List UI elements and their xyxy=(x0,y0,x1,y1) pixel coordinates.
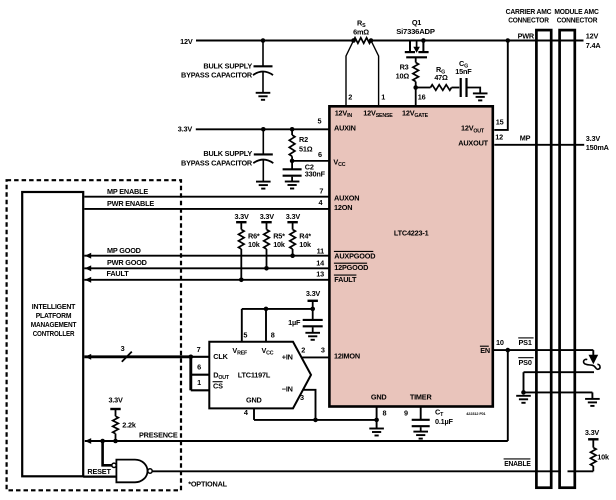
svg-text:PWR ENABLE: PWR ENABLE xyxy=(107,199,154,208)
svg-text:PS0: PS0 xyxy=(519,358,532,367)
wire analog ground run xyxy=(254,419,377,421)
svg-text:EN: EN xyxy=(480,346,490,355)
wire +IN to 12IMON xyxy=(301,356,330,358)
svg-text:PWR GOOD: PWR GOOD xyxy=(107,258,147,267)
svg-text:150mA: 150mA xyxy=(586,143,610,152)
wire sense line to pin 1 xyxy=(371,41,379,108)
junction Q1 drain xyxy=(421,38,426,43)
svg-text:−IN: −IN xyxy=(282,385,293,394)
svg-text:8: 8 xyxy=(383,408,387,417)
wire CLK stub xyxy=(191,356,209,358)
wire 12VOUT pin 15 xyxy=(494,41,508,130)
svg-text:CONNECTOR: CONNECTOR xyxy=(508,15,549,24)
svg-text:AUXON: AUXON xyxy=(334,194,359,203)
junction PS0 ground xyxy=(521,390,526,395)
junction 2.2k presence xyxy=(113,439,118,444)
op-amp U1 LTC4223-1 xyxy=(329,106,492,406)
svg-text:12IMON: 12IMON xyxy=(334,351,360,360)
svg-text:2.2k: 2.2k xyxy=(122,420,137,429)
svg-text:7.4A: 7.4A xyxy=(586,41,602,50)
svg-text:CONNECTOR: CONNECTOR xyxy=(557,15,598,24)
wire PS0 xyxy=(524,371,595,373)
wire CG to ground xyxy=(468,88,481,94)
svg-text:10: 10 xyxy=(496,338,504,347)
wire gate node to pin 16 xyxy=(415,88,417,108)
node 16 junction xyxy=(413,85,418,90)
svg-text:10Ω: 10Ω xyxy=(396,72,410,81)
svg-text:LTC1197L: LTC1197L xyxy=(238,370,271,379)
wire Q1 gate lead xyxy=(415,57,417,62)
svg-text:3: 3 xyxy=(121,344,125,353)
svg-text:BULK SUPPLY: BULK SUPPLY xyxy=(203,61,252,70)
op-amp U2 LTC1197L ADC xyxy=(209,342,311,409)
junction IC ground xyxy=(374,418,379,423)
svg-text:PLATFORM: PLATFORM xyxy=(36,311,72,320)
svg-text:3: 3 xyxy=(321,346,325,355)
wire PWR ENABLE xyxy=(84,208,330,210)
wire PRESENCE xyxy=(85,440,508,442)
svg-text:0.1µF: 0.1µF xyxy=(435,417,454,426)
wire MP ENABLE xyxy=(84,196,330,198)
capacitor CT 0.1uF xyxy=(420,406,422,419)
svg-text:10k: 10k xyxy=(273,240,286,249)
wire R3 to gate node xyxy=(415,82,417,88)
wire bus vertical xyxy=(189,357,192,391)
svg-text:BYPASS CAPACITOR: BYPASS CAPACITOR xyxy=(181,70,253,79)
svg-text:1: 1 xyxy=(381,93,385,102)
ground 1uF cap xyxy=(305,333,320,340)
junction R2 top xyxy=(290,127,295,132)
wire -IN down xyxy=(303,390,316,420)
ground C2 xyxy=(285,182,300,189)
wire RESET xyxy=(83,476,116,478)
nand input bubble xyxy=(112,463,116,467)
junction Rs right xyxy=(369,38,374,43)
junction bulk cap 12V xyxy=(261,38,266,43)
wire EN presence vertical xyxy=(507,350,509,441)
ground CG xyxy=(473,93,488,100)
svg-text:GND: GND xyxy=(371,392,387,401)
junction PWR xyxy=(506,38,511,43)
ground CT cap xyxy=(413,432,428,439)
svg-text:6: 6 xyxy=(197,362,201,371)
svg-text:330nF: 330nF xyxy=(305,169,326,178)
svg-text:1µF: 1µF xyxy=(288,318,301,327)
svg-text:47Ω: 47Ω xyxy=(434,73,448,82)
capacitor C2 330nF xyxy=(291,161,293,169)
svg-text:Q1: Q1 xyxy=(412,18,421,27)
svg-text:12ON: 12ON xyxy=(334,203,352,212)
svg-text:8: 8 xyxy=(271,331,275,340)
svg-text:51Ω: 51Ω xyxy=(299,144,313,153)
svg-text:10k: 10k xyxy=(248,240,261,249)
svg-text:MANAGEMENT: MANAGEMENT xyxy=(31,320,77,329)
svg-text:Si7336ADP: Si7336ADP xyxy=(396,27,435,36)
wire RG to CG xyxy=(452,87,460,89)
svg-text:3.3V: 3.3V xyxy=(108,396,123,405)
svg-text:CS: CS xyxy=(213,382,223,391)
svg-text:3.3V: 3.3V xyxy=(178,124,193,133)
svg-text:13: 13 xyxy=(316,270,324,279)
svg-text:15: 15 xyxy=(496,118,504,127)
svg-text:15nF: 15nF xyxy=(455,67,472,76)
junction bus CLK xyxy=(189,355,194,360)
junction R6 bottom xyxy=(239,278,244,283)
svg-text:FAULT: FAULT xyxy=(334,275,357,284)
svg-text:6: 6 xyxy=(318,150,322,159)
switch module presence contact xyxy=(592,350,594,355)
junction Rs left xyxy=(351,38,356,43)
svg-text:3: 3 xyxy=(300,393,304,402)
svg-text:AUXIN: AUXIN xyxy=(334,123,356,132)
junction -IN ground xyxy=(313,418,318,423)
svg-text:AUXPGOOD: AUXPGOOD xyxy=(334,252,375,261)
resistor RS 6m&#937; sense xyxy=(354,38,372,44)
capacitor CG 15nF xyxy=(460,78,462,97)
resistor R3 10ohm xyxy=(413,63,419,82)
wire EN to PS1 xyxy=(493,349,594,351)
connector carrier AMC xyxy=(536,30,551,488)
junction EN node xyxy=(506,348,511,353)
svg-text:AUXOUT: AUXOUT xyxy=(458,139,488,148)
connector module AMC xyxy=(560,30,575,488)
capacitor bulk supply bypass 3.3V xyxy=(262,129,264,154)
svg-text:CONTROLLER: CONTROLLER xyxy=(33,329,75,338)
svg-text:3.3V: 3.3V xyxy=(260,212,275,221)
block IPMC intelligent platform management controller xyxy=(22,192,83,476)
svg-text:422312 F01: 422312 F01 xyxy=(466,412,485,416)
junction bulk cap 3.3V xyxy=(261,127,266,132)
nand output bubble xyxy=(148,469,152,473)
svg-text:R3: R3 xyxy=(400,63,409,72)
svg-text:MP: MP xyxy=(520,134,531,143)
ground bulk cap 3.3V xyxy=(256,182,271,189)
svg-text:3.3V: 3.3V xyxy=(585,428,600,437)
svg-text:+IN: +IN xyxy=(282,352,293,361)
svg-text:9: 9 xyxy=(404,408,408,417)
ground bulk cap 12V xyxy=(256,93,271,100)
ground IC GND xyxy=(369,429,384,436)
bus slash 3 label xyxy=(122,352,132,362)
svg-text:3.3V: 3.3V xyxy=(306,289,321,298)
wire VCC to pin 6 xyxy=(292,160,330,162)
junction VCC node xyxy=(290,159,295,164)
wire FAULT pin 13 xyxy=(84,279,330,281)
svg-text:3.3V: 3.3V xyxy=(286,212,301,221)
svg-text:6mΩ: 6mΩ xyxy=(353,27,369,36)
svg-text:GND: GND xyxy=(246,396,262,405)
svg-text:MP GOOD: MP GOOD xyxy=(107,246,141,255)
resistor RG 47ohm xyxy=(431,85,452,91)
svg-text:16: 16 xyxy=(418,93,426,102)
capacitor 1uF xyxy=(312,309,314,320)
wire CS stub xyxy=(191,389,209,391)
svg-text:10k: 10k xyxy=(299,240,312,249)
wire 12V rail xyxy=(196,40,584,42)
svg-text:PWR: PWR xyxy=(518,31,535,40)
ground module side xyxy=(585,399,600,406)
svg-text:LTC4223-1: LTC4223-1 xyxy=(394,228,429,237)
svg-text:12V: 12V xyxy=(180,37,193,46)
resistor R2 51ohm xyxy=(291,129,293,135)
svg-text:BYPASS CAPACITOR: BYPASS CAPACITOR xyxy=(181,158,253,167)
svg-text:PRESENCE: PRESENCE xyxy=(139,430,178,439)
wire presence to nand input xyxy=(103,441,112,465)
svg-text:MP ENABLE: MP ENABLE xyxy=(107,187,148,196)
wire VREF pin 5 xyxy=(241,309,243,342)
svg-text:FAULT: FAULT xyxy=(107,269,130,278)
svg-text:INTELLIGENT: INTELLIGENT xyxy=(32,302,76,311)
junction VCC top xyxy=(264,307,269,312)
svg-text:12: 12 xyxy=(495,133,503,142)
svg-text:12PGOOD: 12PGOOD xyxy=(334,263,368,272)
wire GND pin 8 to ground xyxy=(376,406,378,428)
svg-text:CLK: CLK xyxy=(213,352,228,361)
svg-text:2: 2 xyxy=(348,93,352,102)
optional dashed boundary xyxy=(7,180,181,490)
svg-text:3.3V: 3.3V xyxy=(586,134,601,143)
wire VCC pin 8 xyxy=(265,309,267,342)
svg-text:2: 2 xyxy=(301,346,305,355)
junction 3.3V cap node xyxy=(310,307,315,312)
svg-text:BULK SUPPLY: BULK SUPPLY xyxy=(203,149,252,158)
wire ENABLE xyxy=(152,470,561,472)
svg-text:5: 5 xyxy=(243,331,247,340)
wire MP AUXOUT pin 12 xyxy=(494,144,584,146)
svg-text:RESET: RESET xyxy=(87,467,111,476)
wire MP GOOD pin 11 xyxy=(84,255,330,257)
wire PWR GOOD pin 14 xyxy=(84,267,330,269)
svg-text:11: 11 xyxy=(317,246,324,255)
svg-text:5: 5 xyxy=(318,117,322,126)
svg-text:12V: 12V xyxy=(586,32,599,41)
wire SPI bus 3 xyxy=(84,355,191,358)
svg-text:PS1: PS1 xyxy=(519,338,532,347)
wire GND pin 4 xyxy=(253,408,255,420)
svg-text:10k: 10k xyxy=(597,453,610,462)
junction R5 bottom xyxy=(264,266,269,271)
svg-text:1: 1 xyxy=(197,378,201,387)
svg-text:ENABLE: ENABLE xyxy=(504,459,531,468)
svg-text:*OPTIONAL: *OPTIONAL xyxy=(188,479,227,488)
svg-text:14: 14 xyxy=(316,258,325,267)
wire module ground run xyxy=(524,391,593,393)
svg-text:7: 7 xyxy=(319,186,323,195)
svg-text:R2: R2 xyxy=(299,135,308,144)
wire DOUT stub xyxy=(191,374,209,376)
junction R4 bottom xyxy=(290,253,295,258)
svg-text:7: 7 xyxy=(197,345,201,354)
wire PS0 to ground xyxy=(523,372,525,392)
wire 3.3V rail xyxy=(196,128,331,130)
logic gate U3 nand xyxy=(116,460,147,483)
svg-text:3.3V: 3.3V xyxy=(234,212,249,221)
ground PS0 carrier xyxy=(516,396,531,403)
wire VREF VCC top xyxy=(242,308,313,310)
wire sense line to pin 2 xyxy=(346,41,354,108)
junction presence nand xyxy=(100,439,105,444)
svg-text:TIMER: TIMER xyxy=(410,392,433,401)
wire module ground drop xyxy=(591,392,593,399)
capacitor bulk supply bypass 12V xyxy=(262,41,264,67)
wire gate node to RG xyxy=(416,87,431,89)
